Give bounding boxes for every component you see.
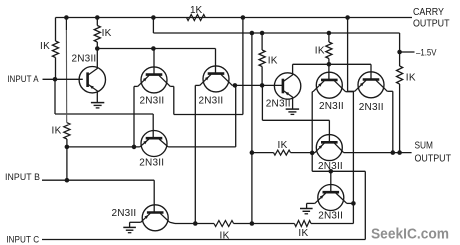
svg-text:OUTPUT: OUTPUT — [415, 154, 452, 165]
svg-text:2N3II: 2N3II — [359, 102, 384, 113]
wire column B faint vertical — [65, 30, 67, 123]
wire left rail corner segment — [55, 18, 57, 42]
label INPUT B — [5, 172, 40, 182]
resistor R1 1K (left vertical) — [52, 41, 58, 58]
node dot W2 / Q2 base — [151, 46, 156, 51]
wire Q10 collector elbow — [347, 202, 354, 204]
wire input B lead — [42, 179, 154, 181]
wire Q3 collector elbow — [232, 84, 235, 86]
wire input C lead — [42, 239, 365, 241]
node junction dot top rail / Q2 collector riser — [241, 15, 246, 20]
label R10 1K — [278, 140, 288, 151]
label Q1 2N311 — [72, 54, 97, 65]
wire R8 bus segment 3 — [311, 223, 353, 225]
label Q8 2N311 — [359, 102, 384, 113]
label SUM OUTPUT — [415, 154, 452, 165]
wire input A node down — [54, 79, 56, 114]
wire Q8 collector drop — [392, 91, 394, 152]
wire W5 base lead of Q6 — [235, 84, 283, 86]
wire input A lead — [43, 78, 83, 80]
wire Q10 emitter elbow — [307, 202, 315, 204]
node dot W5 / R5 / Q6 base — [260, 83, 265, 88]
label R9 1K — [298, 228, 308, 239]
node dot W6 / R6 column — [327, 31, 332, 36]
wire W9 horizontal — [312, 170, 365, 172]
resistor R7 1K (right vertical) — [397, 66, 403, 84]
wire long drop Q7 collector to R8 bus — [352, 92, 354, 224]
svg-text:IK: IK — [298, 228, 308, 239]
transistor Q1 2N311 — [79, 67, 105, 93]
wire R3 to node — [66, 139, 68, 147]
wire Q8 base lead — [370, 64, 372, 79]
label R1 1K — [40, 41, 50, 52]
label R2 1K — [102, 28, 112, 39]
node dot W6 / sum column — [250, 31, 255, 36]
wire Q8 emitter elbow — [348, 90, 355, 92]
label CARRY — [413, 7, 444, 18]
svg-text:IK: IK — [268, 56, 278, 67]
wire R1 to input A node — [55, 58, 57, 80]
ground Q1 emitter — [91, 103, 104, 108]
transistor Q7 2N311 — [313, 72, 346, 98]
wire sum output line left b — [291, 152, 316, 154]
wire Q7 collector elbow — [346, 91, 354, 93]
node dot W8 / R6 / Q7 base — [327, 62, 332, 67]
node dot sum column / sum output line — [250, 150, 255, 155]
node dot input A / R1 — [53, 77, 58, 82]
node dot Q2 emitter / sum bus — [132, 145, 137, 150]
wire sum output line left a — [252, 152, 274, 154]
wire R2 bottom lead — [96, 42, 98, 49]
wire sum bus left of Q4 — [67, 146, 140, 148]
wire R8 bus segment 2 — [234, 223, 295, 225]
ground Q6 emitter — [286, 109, 299, 114]
node dot sum-bus left / R3 — [65, 145, 70, 150]
label R8 1K — [220, 230, 230, 241]
wire Q7 emitter drop — [311, 92, 313, 153]
wire Q8 collector elbow — [387, 90, 393, 92]
label Q4 2N311 — [139, 157, 164, 168]
wire Q2 base riser — [153, 49, 155, 75]
svg-text:INPUT C: INPUT C — [6, 234, 39, 244]
wire W6 drop from top rail — [152, 18, 154, 34]
wire Q6 collector riser — [292, 64, 294, 74]
ground Q5 emitter — [123, 227, 136, 232]
label Q7 2N311 — [319, 101, 344, 112]
transistor Q2 2N311 — [138, 67, 171, 93]
svg-text:IK: IK — [406, 73, 416, 84]
transistor Q8 2N311 — [355, 72, 388, 98]
svg-text:1K: 1K — [190, 5, 203, 16]
resistor R3 1K (mid-left vertical) — [64, 123, 70, 139]
svg-text:SUM: SUM — [415, 141, 434, 152]
wire column B to input B — [66, 147, 68, 180]
label INPUT A — [7, 74, 39, 84]
wire column B upper (top rail down) — [65, 18, 67, 31]
label R5 1K — [268, 56, 278, 67]
resistor R5 1K (vertical mid) — [259, 50, 265, 67]
svg-text:IK: IK — [52, 126, 62, 137]
ground Q10 emitter — [300, 209, 313, 214]
watermark SeekIC.com — [371, 226, 449, 243]
node dot sum column / R8 bus — [250, 221, 255, 226]
wire Q1 emitter drop — [96, 91, 98, 103]
wire R2 top lead — [96, 18, 98, 26]
node dot W9 / Q10 base — [329, 169, 334, 174]
svg-text:2N3II: 2N3II — [139, 157, 164, 168]
resistor R9 1K (bottom horizontal right) — [294, 221, 311, 227]
wire R7 bottom lead — [399, 84, 401, 153]
wire top supply rail — [56, 17, 413, 19]
wire carry rail corner drop — [399, 33, 401, 66]
svg-text:–1.5V: –1.5V — [416, 48, 437, 58]
node dot Q10 collector junction — [351, 201, 356, 206]
wire Q2 emitter elbow — [134, 85, 138, 87]
wire R6 bottom lead — [328, 59, 330, 65]
wire W7 to Q9 base — [262, 119, 329, 121]
label R4 1K — [190, 5, 203, 16]
wire Q8 emitter feed drop — [347, 18, 349, 92]
wire Q2 collector drop — [173, 86, 175, 114]
wire Q2 emitter drop — [133, 86, 135, 146]
node dot W6 / R5 column — [260, 31, 265, 36]
svg-text:OUTPUT: OUTPUT — [413, 19, 450, 30]
wire W1 horizontal to Q4 base — [55, 113, 153, 115]
transistor Q10 2N311 — [315, 185, 347, 211]
transistor Q9 2N311 — [315, 135, 344, 161]
label Q3 2N311 — [199, 95, 224, 106]
label INPUT C — [6, 234, 39, 244]
wire sum bus right of Q4 — [168, 146, 236, 148]
svg-text:2N3II: 2N3II — [199, 95, 224, 106]
wire Q3 emitter drop — [194, 85, 196, 223]
transistor Q4 2N311 — [140, 131, 168, 157]
wire riser sum bus to W5 — [235, 85, 237, 146]
wire Q2 collector elbow — [170, 85, 174, 87]
svg-text:2N3II: 2N3II — [140, 95, 165, 106]
wire W4 Q2 collector to riser — [174, 114, 243, 116]
wire Q7 emitter elbow — [311, 91, 314, 93]
svg-text:INPUT A: INPUT A — [7, 74, 39, 84]
svg-text:IK: IK — [40, 41, 50, 52]
wire Q2 collector riser to top rail — [242, 18, 244, 115]
wire Q3 base lead — [215, 72, 217, 75]
wire Q5 base drop — [153, 180, 155, 212]
wire Q5 collector elbow — [170, 222, 175, 223]
wire sum column lower — [251, 153, 253, 224]
svg-text:2N3II: 2N3II — [318, 211, 343, 222]
node dot Q3 collector / W5 — [233, 83, 238, 88]
svg-text:INPUT B: INPUT B — [5, 172, 40, 182]
wire W8 collector bus to Q8 base — [293, 63, 371, 65]
svg-text:2N3II: 2N3II — [112, 208, 137, 219]
label Q9 2N311 — [318, 161, 343, 172]
label R3 1K — [52, 126, 62, 137]
svg-text:IK: IK — [102, 28, 112, 39]
wire -1.5V tap lead — [400, 51, 415, 53]
wire W6 horizontal bus — [153, 32, 399, 34]
node dot sum line / Q7 emitter / Q9 base branch — [310, 151, 315, 156]
svg-text:IK: IK — [315, 46, 325, 57]
wire Q9 base drop — [328, 120, 330, 142]
wire Q3 emitter elbow — [195, 84, 199, 86]
label SUM — [415, 141, 434, 152]
node dot Q3 emitter / R8 bus — [193, 221, 198, 226]
svg-text:2N3II: 2N3II — [266, 99, 291, 110]
label -1.5V — [416, 48, 437, 58]
wire R6 top lead — [328, 33, 330, 42]
svg-text:SeekIC.com: SeekIC.com — [371, 226, 449, 243]
wire R5 bottom lead — [261, 67, 263, 86]
label CARRY OUTPUT — [413, 19, 450, 30]
wire input C riser — [364, 171, 366, 239]
label Q6 2N311 — [266, 99, 291, 110]
resistor R2 1K (vertical at Q1 collector) — [94, 26, 100, 43]
resistor R8 1K (bottom horizontal left) — [214, 221, 234, 227]
label Q5 2N311 — [112, 208, 137, 219]
node dot input B junction — [65, 178, 70, 183]
wire Q5 emitter elbow — [130, 221, 141, 223]
label Q10 2N311 — [318, 211, 343, 222]
label R6 1K — [315, 46, 325, 57]
node dot sum line / Q8 collector — [391, 150, 396, 155]
node dot -1.5V tap — [397, 50, 402, 55]
wire Q3 base drop from W2 — [215, 49, 217, 74]
wire R5 top lead — [261, 33, 263, 50]
wire Q1 collector riser — [96, 49, 98, 69]
wire Q4 base drop — [152, 114, 154, 138]
wire Q6 emitter drop — [292, 97, 294, 109]
svg-text:2N3II: 2N3II — [72, 54, 97, 65]
node junction dot top rail / 1K R1 column — [64, 15, 69, 20]
resistor R10 1K (sum line horizontal) — [274, 150, 291, 155]
wire Q10 base drop — [330, 171, 332, 192]
transistor Q5 2N311 — [141, 205, 170, 231]
wire Q5 emitter stub — [129, 222, 131, 227]
resistor R6 1K (vertical at Q7 base) — [326, 42, 332, 59]
wire R8 bus segment 1 — [175, 223, 214, 225]
wire Q9 base branch drop — [311, 153, 313, 171]
node junction dot top rail / carry bus drop — [151, 15, 156, 20]
node dot sum line / R7 — [397, 150, 402, 155]
wire R5 column drop — [261, 85, 263, 120]
label Q2 2N311 — [140, 95, 165, 106]
svg-text:IK: IK — [278, 140, 288, 151]
wire Q7 base lead — [328, 64, 330, 80]
wire Q10 emitter stub — [306, 203, 308, 208]
node junction dot top rail / 1K R2 column — [95, 15, 100, 20]
transistor Q3 2N311 — [200, 66, 233, 92]
wire W2 horizontal base bus — [97, 48, 215, 50]
svg-text:CARRY: CARRY — [413, 7, 444, 18]
svg-text:2N3II: 2N3II — [319, 101, 344, 112]
node dot W2 / R2 / Q1 collector — [95, 46, 100, 51]
wire sum output line right — [344, 152, 412, 154]
transistor Q6 2N311 — [274, 73, 300, 99]
wire Q3 collector drop — [234, 84, 236, 86]
node junction dot top rail / Q8 emitter feed — [345, 15, 350, 20]
label R7 1K — [406, 73, 416, 84]
wire sum column upper — [251, 33, 253, 153]
resistor R4 1K (top horizontal) — [187, 15, 206, 21]
